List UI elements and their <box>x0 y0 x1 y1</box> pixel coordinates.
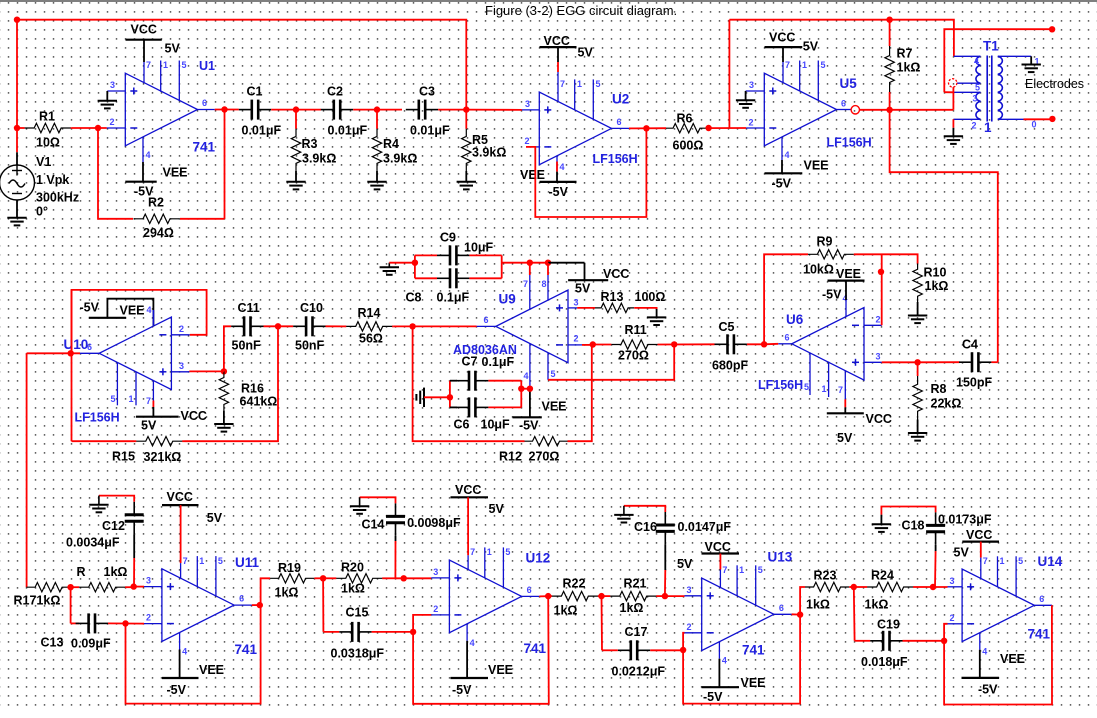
wire R3 to ground <box>295 171 297 182</box>
wire U1 pin1 stub <box>160 61 162 92</box>
svg-text:1kΩ: 1kΩ <box>925 279 949 293</box>
wire U11 out riser <box>261 578 271 605</box>
svg-text:C13: C13 <box>41 636 64 650</box>
node R21-C16 <box>662 593 668 599</box>
wire R4 riser <box>376 110 378 129</box>
svg-text:C8: C8 <box>406 291 422 305</box>
svg-text:5V: 5V <box>575 282 591 296</box>
virtual connection circle at U5 output <box>851 106 859 114</box>
op-amp U11 body <box>162 569 234 642</box>
wire T1 pin5 lead <box>957 82 981 84</box>
VCC bar U5 <box>765 46 803 48</box>
svg-text:VCC: VCC <box>181 409 207 423</box>
wire U14 pin3 stub <box>948 586 963 588</box>
svg-text:R3: R3 <box>302 137 318 151</box>
ground at C12 <box>89 496 108 513</box>
svg-text:C7: C7 <box>462 355 478 369</box>
wire U10 pin6 stub <box>80 352 99 354</box>
wire U9 pin7 stub <box>529 275 531 310</box>
VEE bar U10 <box>89 317 126 319</box>
node R8-C4 <box>914 359 920 365</box>
node R22-R21 <box>598 593 604 599</box>
wire T1 pin0 lead <box>998 118 1024 120</box>
ground at C16 <box>614 506 633 523</box>
svg-text:C16: C16 <box>634 520 657 534</box>
wire C17 left red <box>602 649 618 651</box>
wire U2 pin3 stub <box>522 109 539 111</box>
svg-text:3.9kΩ: 3.9kΩ <box>383 152 417 166</box>
wire electrode B <box>1024 118 1053 120</box>
svg-text:VEE: VEE <box>163 166 188 180</box>
svg-text:4: 4 <box>982 647 987 657</box>
VEE bar U5 <box>765 172 803 174</box>
wire U9 pin5 stub <box>547 353 549 380</box>
svg-text:-5V: -5V <box>703 690 723 704</box>
svg-text:2: 2 <box>525 136 530 146</box>
svg-text:-5V: -5V <box>978 683 998 697</box>
wire U10 pin4 blue part <box>152 310 154 326</box>
wire R12 to R11 node <box>568 345 592 441</box>
svg-text:C1: C1 <box>247 85 263 99</box>
wire R15 to C10 node riser <box>185 326 279 441</box>
wire U1 pin4 stub <box>142 137 144 162</box>
wire R8 to ground <box>917 420 919 434</box>
capacitor C15 <box>339 622 371 642</box>
svg-text:U5: U5 <box>840 76 858 91</box>
node U13 output <box>797 611 803 617</box>
wire U14 output corner <box>944 605 1052 704</box>
node C6-C7 right tie <box>518 386 524 392</box>
svg-text:C2: C2 <box>327 85 343 99</box>
ground under R10 <box>908 316 927 324</box>
wire R11 to C5 <box>658 343 715 345</box>
wire U9 pin2 stub <box>568 344 582 346</box>
VCC bar U11 <box>162 504 199 506</box>
wire U13 pin1 stub <box>736 565 738 595</box>
virtual connection circle at T1 tap <box>949 79 957 87</box>
op-amp U9 + input marker <box>556 304 563 311</box>
svg-text:7: 7 <box>183 556 188 566</box>
wire V1 top lead <box>16 152 18 165</box>
wire U11 pin4 to VEE <box>179 650 181 678</box>
wire C9 left lead red <box>415 254 437 256</box>
wire C6 right red <box>488 406 521 408</box>
svg-text:3: 3 <box>950 576 955 586</box>
wire U2 output to R6 <box>629 127 666 129</box>
svg-text:2: 2 <box>972 121 977 131</box>
wire R23 node down <box>853 587 856 641</box>
wire U6 pin2 stub <box>864 324 882 326</box>
wire R14 to U9 node <box>394 325 413 327</box>
svg-text:R6: R6 <box>677 112 693 126</box>
transformer T1 secondary coil <box>998 56 1003 119</box>
node C8-C9 left tie <box>412 260 418 266</box>
svg-text:6: 6 <box>1039 594 1044 604</box>
svg-text:R24: R24 <box>871 569 894 583</box>
svg-text:LF156H: LF156H <box>75 411 120 425</box>
svg-text:1: 1 <box>487 547 492 557</box>
svg-text:4: 4 <box>524 371 529 381</box>
svg-text:C12: C12 <box>102 519 125 533</box>
wire C19 right red <box>903 640 945 642</box>
wire R12 left riser <box>413 326 525 441</box>
svg-text:5: 5 <box>596 79 601 89</box>
svg-text:100Ω: 100Ω <box>635 290 666 304</box>
wire C16 to R21 node <box>664 544 666 570</box>
svg-text:2: 2 <box>146 613 151 623</box>
op-amp U12 body <box>449 560 521 633</box>
svg-text:1: 1 <box>163 60 168 70</box>
wire R19 node down <box>322 578 324 632</box>
svg-text:U14: U14 <box>1038 554 1063 569</box>
wire R21 to U13 + <box>665 595 685 597</box>
ground under R5 <box>457 182 476 190</box>
wire C19 node to U14 - <box>944 624 947 641</box>
wire U2 feedback loop <box>526 128 646 217</box>
svg-text:600Ω: 600Ω <box>673 139 704 153</box>
svg-text:-5V: -5V <box>452 683 472 697</box>
svg-text:U6: U6 <box>786 312 804 327</box>
svg-text:-5V: -5V <box>822 288 842 302</box>
wire U1 pin2 stub <box>107 127 126 129</box>
svg-text:U1: U1 <box>199 59 215 73</box>
svg-text:150pF: 150pF <box>956 376 992 390</box>
svg-text:1kΩ: 1kΩ <box>275 586 299 600</box>
resistor R13 <box>595 303 634 312</box>
wire C11-C10 mid <box>264 325 294 327</box>
svg-text:VCC: VCC <box>167 490 193 504</box>
wire U11 pin6 stub <box>234 604 252 606</box>
VCC bar U14 <box>962 540 999 542</box>
svg-text:1 Vpk: 1 Vpk <box>36 173 69 187</box>
VEE bar U6 <box>828 280 865 282</box>
svg-text:1: 1 <box>739 565 744 575</box>
svg-text:4: 4 <box>560 162 565 172</box>
svg-text:U12: U12 <box>526 551 551 566</box>
resistor R23 <box>805 582 849 591</box>
wire U1 feedback bottom left <box>98 128 133 219</box>
wire U6 pin6 stub <box>778 343 792 345</box>
resistor R1 <box>23 127 26 129</box>
wire R8 node to C4 <box>918 361 960 363</box>
node U11 output <box>257 602 263 608</box>
wire R15 left red <box>72 440 135 442</box>
node U2 output junction <box>643 125 649 131</box>
svg-text:0.0173μF: 0.0173μF <box>938 513 992 527</box>
wire R2 to right leg <box>180 218 225 220</box>
node U9 pin8 tap <box>545 260 551 266</box>
wire C12 to R18 node <box>133 534 135 558</box>
wire R18 to U11 + <box>134 586 144 588</box>
wire U12 pin5 stub <box>502 547 504 587</box>
svg-text:5: 5 <box>551 369 556 379</box>
wire U13 pin4 to VEE <box>718 659 720 687</box>
svg-text:6: 6 <box>617 117 622 127</box>
svg-text:U13: U13 <box>768 550 793 565</box>
wire U2 pin7 red seg <box>557 62 559 72</box>
capacitor C16 <box>656 512 675 544</box>
wire U6 pin7 red <box>844 399 846 407</box>
ground under R8 <box>908 433 927 441</box>
VEE bar U11 <box>162 677 199 679</box>
wire U13 pin2 stub <box>685 632 702 634</box>
svg-text:R1: R1 <box>39 110 55 124</box>
wire U13 pin7 stub <box>719 570 721 588</box>
resistor R21 <box>602 595 611 597</box>
node R24-C18 <box>930 584 936 590</box>
wire U5 pin6 stub <box>837 109 852 111</box>
node C15-U12minus <box>410 629 416 635</box>
wire U5 output to C4 <box>890 110 998 362</box>
wire U11 pin5 stub <box>215 556 217 596</box>
node R7 top junction <box>886 17 892 23</box>
svg-text:5: 5 <box>218 556 223 566</box>
wire U14 pin7 stub <box>980 558 982 579</box>
wire U12 pin7 from VCC <box>467 497 469 555</box>
resistor R3 <box>291 129 300 171</box>
svg-text:R8: R8 <box>931 382 947 396</box>
wire U9 pin7 red <box>529 263 531 275</box>
wire tie to U9 pin4 <box>521 388 530 390</box>
wire R23 to R24 <box>849 586 854 588</box>
svg-text:VEE: VEE <box>836 267 861 281</box>
wire C5 to U6 node <box>747 343 764 345</box>
VEE bar U9 <box>513 416 542 418</box>
wire C8-C9 ground wire <box>389 262 415 264</box>
wire U1 pin3 ground stem <box>106 91 108 101</box>
ground under T1 primary <box>944 136 963 144</box>
resistor R2 <box>134 214 180 223</box>
node R20-C14 <box>401 575 407 581</box>
transformer T1 primary coil B <box>976 92 981 119</box>
node R1 input junction <box>14 125 20 131</box>
op-amp U13 + input marker <box>707 592 714 599</box>
svg-text:7: 7 <box>523 279 528 289</box>
svg-text:10Ω: 10Ω <box>36 136 60 150</box>
svg-text:R13: R13 <box>601 290 624 304</box>
wire U13 pin4 stub <box>718 642 720 659</box>
node R19-R20 <box>320 575 326 581</box>
wire U2 pin6 stub <box>612 127 630 129</box>
svg-text:R15: R15 <box>112 450 135 464</box>
node R11 left <box>590 341 596 347</box>
wire R7 red bottom <box>889 96 891 110</box>
wire C9 right lead red <box>469 254 501 256</box>
capacitor C13 <box>76 613 108 633</box>
svg-text:LF156H: LF156H <box>827 136 872 150</box>
wire U5 pin7 stub <box>782 62 784 83</box>
wire U10 pin4 path <box>107 299 153 327</box>
resistor R10 <box>913 264 922 303</box>
svg-text:C17: C17 <box>625 625 648 639</box>
svg-text:0.01μF: 0.01μF <box>328 124 368 138</box>
op-amp U5 + input marker <box>769 88 776 95</box>
wire U5 pin4 to VEE <box>781 160 783 173</box>
VEE bar U13 <box>702 686 740 688</box>
svg-text:741: 741 <box>1028 627 1051 642</box>
svg-text:1: 1 <box>984 120 992 135</box>
svg-text:1: 1 <box>577 79 582 89</box>
wire U6 + to R8 node <box>882 361 918 363</box>
VCC bar U12 <box>451 496 489 498</box>
wire tap circle to pin5 <box>956 82 958 84</box>
ground at C18 <box>872 524 891 532</box>
svg-text:6: 6 <box>239 594 244 604</box>
op-amp U2 + input marker <box>544 106 551 113</box>
node R6 output junction <box>705 125 711 131</box>
svg-text:C19: C19 <box>877 618 900 632</box>
resistor R12 <box>525 437 568 446</box>
wire U12 pin3 stub <box>431 577 449 579</box>
svg-text:C15: C15 <box>346 606 369 620</box>
wire C11 left riser <box>224 326 231 371</box>
wire C7 left lead ext <box>450 380 457 382</box>
svg-text:2: 2 <box>876 315 881 325</box>
op-amp U11 - input marker <box>167 623 174 625</box>
svg-text:2: 2 <box>950 613 955 623</box>
wire U14 pin4 to VEE <box>979 650 981 678</box>
wire U14 pin5 stub <box>1015 556 1017 596</box>
resistor R4 <box>372 129 381 171</box>
svg-text:7: 7 <box>838 385 843 395</box>
svg-text:3: 3 <box>525 99 530 109</box>
svg-text:6: 6 <box>779 603 784 613</box>
svg-text:1: 1 <box>802 60 807 70</box>
op-amp U14 + input marker <box>967 583 974 590</box>
svg-text:50nF: 50nF <box>295 339 325 353</box>
wire C18 ground rail <box>881 507 935 515</box>
svg-text:5: 5 <box>821 60 826 70</box>
wire C1 to R3 node <box>271 109 321 111</box>
svg-text:R21: R21 <box>624 577 647 591</box>
svg-text:7: 7 <box>146 60 151 70</box>
resistor R22 <box>548 595 552 597</box>
wire U6 pin3 stub <box>864 361 882 363</box>
wire U6 - riser <box>881 254 883 325</box>
wire R10 to ground <box>917 302 919 316</box>
svg-text:5V: 5V <box>489 502 505 516</box>
op-amp U14 - input marker <box>967 623 974 625</box>
svg-text:641kΩ: 641kΩ <box>240 394 278 408</box>
wire U5 output run <box>860 109 954 111</box>
svg-text:1: 1 <box>129 394 134 404</box>
wire U6 pin7 to VCC <box>844 407 846 413</box>
svg-text:0.01μF: 0.01μF <box>242 124 282 138</box>
wire U13 pin3 stub <box>685 595 702 597</box>
wire U12 pin4 stub <box>466 624 468 641</box>
node electrode B terminal <box>1049 116 1055 122</box>
node U9 pin4 junction <box>527 386 533 392</box>
svg-text:8: 8 <box>542 279 547 289</box>
wire C8-C9 left tie <box>414 255 416 278</box>
op-amp U12 + input marker <box>454 574 461 581</box>
wire U5 pin3 ground stem <box>745 91 747 100</box>
op-amp U5 - input marker <box>769 127 776 129</box>
svg-text:5: 5 <box>182 60 187 70</box>
svg-text:2: 2 <box>433 604 438 614</box>
node C17-U13minus <box>680 647 686 653</box>
wire U5 pin5 stub <box>817 61 819 101</box>
op-amp U11 + input marker <box>167 583 174 590</box>
wire U9 pin3 stub <box>568 307 577 309</box>
wire C19 left red <box>855 640 871 642</box>
svg-text:300kHz: 300kHz <box>36 191 79 205</box>
wire R1 left <box>17 127 24 129</box>
node U9 pin7 tap <box>527 260 533 266</box>
op-amp U10 + input marker <box>159 368 166 375</box>
ground under R3 <box>286 182 305 190</box>
node R23-R24 <box>851 584 857 590</box>
svg-text:270Ω: 270Ω <box>529 450 560 464</box>
svg-text:6: 6 <box>484 315 489 325</box>
VEE bar U14 <box>962 677 1000 679</box>
svg-text:U11: U11 <box>235 555 260 570</box>
wire U12 pin6 stub <box>522 595 540 597</box>
wire U11 pin4 stub <box>179 633 181 650</box>
svg-text:R: R <box>77 565 86 579</box>
svg-text:5: 5 <box>975 83 980 93</box>
svg-text:VEE: VEE <box>741 676 766 690</box>
wire C13 right red <box>108 622 144 624</box>
svg-text:680pF: 680pF <box>712 359 748 373</box>
svg-text:C11: C11 <box>238 301 260 315</box>
wire U12 pin2 stub <box>431 614 449 616</box>
wire R24 to U14 + <box>927 586 948 588</box>
svg-text:VEE: VEE <box>520 168 545 182</box>
svg-text:C10: C10 <box>300 301 323 315</box>
svg-text:R4: R4 <box>383 137 399 151</box>
wire U14 pin4 stub <box>979 633 981 650</box>
wire C14 ground rail <box>360 497 396 503</box>
op-amp U10 - input marker <box>159 334 166 336</box>
wire U6 pin4 from VEE <box>845 281 847 300</box>
node U10 output <box>68 350 74 356</box>
capacitor C2 <box>321 100 353 120</box>
wire C15 left red <box>323 631 339 633</box>
wire C18 red to node <box>934 551 937 587</box>
VCC bar U13 <box>702 552 740 554</box>
svg-text:270Ω: 270Ω <box>618 349 649 363</box>
wire U5 output riser to tap circle <box>952 87 954 110</box>
resistor R24 <box>854 586 867 588</box>
VCC bar U9 <box>568 279 608 281</box>
svg-text:7: 7 <box>983 556 988 566</box>
svg-text:5: 5 <box>505 547 510 557</box>
svg-text:R11: R11 <box>625 323 647 337</box>
wire U10 output to R17 <box>26 353 28 587</box>
resistor R7 <box>889 42 891 46</box>
wire U11 pin3 stub <box>144 586 162 588</box>
wire T1 pin2 lead <box>953 118 980 120</box>
svg-text:741: 741 <box>524 641 547 656</box>
wire C6 left lead ext <box>450 406 457 408</box>
wire R1 to U1 inverting input <box>71 127 107 129</box>
wire U10 output left <box>27 352 80 354</box>
wire U9 pin4 to VEE <box>529 389 531 418</box>
wire C17 node to U13 - <box>683 633 684 650</box>
svg-text:741: 741 <box>235 642 258 657</box>
wire U9 pin8 stub <box>547 275 549 300</box>
wire U2 pin2 stub <box>526 146 539 148</box>
ground under R4 <box>367 182 386 190</box>
VCC bar U6 <box>827 412 864 414</box>
svg-text:5V: 5V <box>165 42 181 56</box>
wire C18 ground stem <box>880 515 882 525</box>
wire U2 pin4 stub <box>556 156 558 171</box>
VEE bar U12 <box>451 677 489 679</box>
svg-text:C4: C4 <box>962 338 978 352</box>
node C13-U11minus <box>122 620 128 626</box>
